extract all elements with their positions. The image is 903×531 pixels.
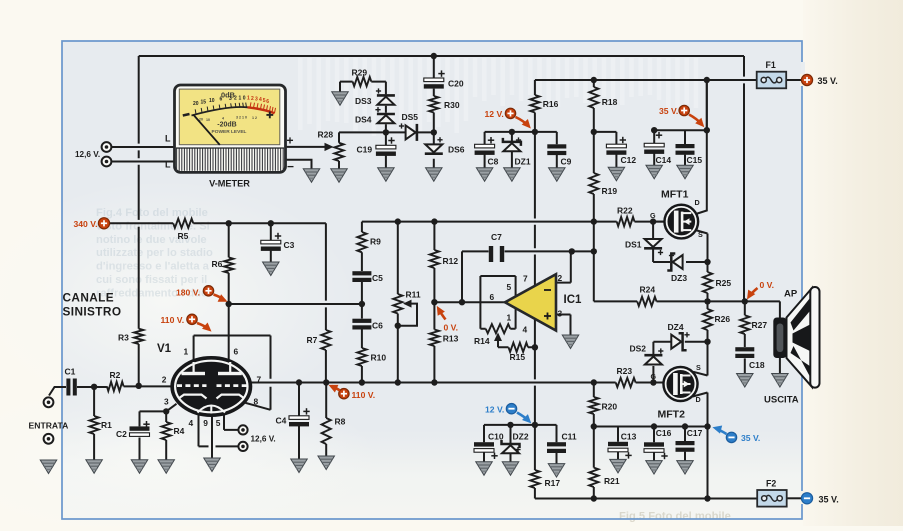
wire 12.6V terminal to meter lower	[111, 161, 175, 163]
wire top feedback rail	[139, 55, 744, 57]
arrow 0V right	[747, 288, 758, 300]
wire MFT2 source	[693, 342, 707, 376]
wire R8 branch	[325, 383, 327, 457]
ground C8	[476, 168, 493, 182]
resistor R16	[530, 95, 539, 113]
wire bracket to tube cathode pin 8	[246, 336, 271, 410]
svg-text:1: 1	[184, 347, 189, 357]
wire DZ1 branch	[511, 132, 513, 168]
svg-text:R23: R23	[617, 366, 633, 376]
V-meter minus mark	[183, 114, 190, 116]
svg-text:10: 10	[209, 98, 215, 104]
wire 12.6V terminal to meter upper	[111, 146, 175, 148]
wire R21 branch	[593, 427, 595, 499]
wire 110V rail (tube pin 7 row)	[251, 382, 663, 384]
diode DS5	[406, 124, 417, 141]
wire C8 branch	[484, 132, 486, 168]
ground C4	[291, 459, 308, 473]
svg-text:35 V.: 35 V.	[741, 433, 760, 443]
svg-text:4: 4	[189, 418, 194, 428]
capacitor C10	[474, 442, 498, 459]
wire R17 bottom to negative rail	[535, 498, 757, 500]
junction node 462,302.2	[459, 299, 465, 305]
svg-text:R29: R29	[352, 68, 368, 78]
svg-text:R16: R16	[543, 99, 559, 109]
wire tube heater pin 9 to ground	[211, 415, 213, 459]
svg-text:35 V.: 35 V.	[819, 494, 839, 504]
svg-text:MFT2: MFT2	[658, 409, 686, 421]
svg-text:DS1: DS1	[625, 240, 642, 250]
transistor MFT2	[663, 367, 698, 402]
junction node 434.4,221.6	[431, 218, 437, 224]
svg-text:G: G	[651, 372, 657, 381]
svg-text:2: 2	[162, 375, 167, 385]
svg-text:DS4: DS4	[355, 115, 372, 125]
junction node 385.9,132.4	[383, 129, 389, 135]
svg-text:C3: C3	[284, 240, 295, 250]
wire C14-C15 node	[654, 80, 707, 130]
junction node 361.9,304	[359, 301, 365, 307]
resistor R13	[430, 330, 439, 347]
svg-text:5: 5	[507, 282, 512, 292]
junction node 534.9,347.3	[532, 344, 538, 350]
ground C16	[646, 461, 663, 475]
op-amp IC1	[505, 274, 556, 330]
ground C14	[646, 165, 663, 179]
wire 0V node to speaker	[708, 301, 780, 319]
wire C9 branch	[556, 132, 558, 168]
svg-text:R14: R14	[474, 336, 490, 346]
junction node 593.8,251.4	[591, 248, 597, 254]
svg-text:C14: C14	[656, 155, 672, 165]
wire R18-R19 chain	[593, 80, 595, 222]
ground R1	[86, 460, 103, 474]
svg-text:35 V.: 35 V.	[659, 106, 678, 116]
capacitor C3	[261, 233, 281, 251]
V-meter secondary tiny scale	[199, 115, 257, 122]
capacitor C20	[424, 70, 445, 88]
junction node 653.4,382.5	[650, 379, 656, 385]
svg-text:V-METER: V-METER	[209, 179, 250, 189]
junction node 433.8,56	[431, 53, 437, 59]
svg-text:D: D	[696, 395, 701, 404]
V-meter plus mark	[266, 114, 273, 116]
diode DS6	[425, 144, 443, 153]
svg-text:0: 0	[243, 95, 246, 101]
junction node 707.5,341.7	[704, 339, 710, 345]
wire op-amp pin 2 stub	[557, 251, 571, 282]
speaker AP	[773, 287, 819, 388]
resistor R19	[589, 173, 598, 194]
wire C3 branch	[270, 223, 272, 240]
svg-text:R7: R7	[307, 335, 318, 345]
schematic panel background	[62, 41, 802, 519]
capacitor C2	[130, 421, 150, 436]
svg-text:Fig.5 Foto del mobile: Fig.5 Foto del mobile	[619, 511, 731, 523]
svg-text:7: 7	[523, 274, 528, 284]
blue border frame	[62, 41, 802, 519]
svg-text:1: 1	[247, 95, 250, 101]
svg-text:8: 8	[254, 397, 259, 407]
svg-text:R28: R28	[318, 130, 334, 140]
wire F2 to terminal	[787, 497, 802, 499]
svg-text:C5: C5	[372, 273, 383, 283]
svg-text:R18: R18	[602, 97, 618, 107]
photo bleed-through stripes (heatsink ghost)	[298, 58, 698, 136]
svg-text:4: 4	[222, 117, 224, 121]
svg-text:12 V.: 12 V.	[485, 109, 504, 119]
V-meter needle	[193, 115, 220, 145]
ground DZ1	[504, 168, 521, 182]
svg-text:C2: C2	[116, 429, 127, 439]
svg-text:R13: R13	[443, 334, 459, 344]
svg-text:C6: C6	[372, 321, 383, 331]
svg-text:DZ1: DZ1	[515, 157, 531, 167]
junction node 228.7,304	[226, 301, 232, 307]
svg-text:+: +	[287, 133, 294, 147]
svg-text:d'ingresso e l'aletta a: d'ingresso e l'aletta a	[96, 261, 210, 273]
ground input	[40, 460, 57, 474]
resistor R11 trimmer	[393, 294, 402, 314]
svg-text:C7: C7	[491, 232, 502, 242]
svg-text:R11: R11	[406, 290, 421, 300]
wire R25 between source and 0V node	[707, 262, 709, 301]
svg-text:R30: R30	[444, 100, 460, 110]
junction node 707.5,498.5	[704, 495, 710, 501]
junction node 744.8,301.4	[742, 298, 748, 304]
svg-text:12,6 V.: 12,6 V.	[75, 150, 100, 159]
svg-text:USCITA: USCITA	[764, 395, 799, 406]
ground DS6	[426, 168, 443, 182]
capacitor C13	[608, 442, 632, 459]
ground op-amp pin 3	[562, 335, 579, 349]
svg-text:L: L	[165, 134, 171, 144]
resistor R12	[430, 250, 439, 268]
resistor R4	[162, 422, 171, 440]
svg-text:12 V.: 12 V.	[485, 405, 504, 415]
wire offset null box pins 5 and 1	[480, 276, 515, 329]
capacitor C18	[735, 347, 754, 358]
ground tube pin 9	[204, 458, 221, 472]
svg-text:3: 3	[255, 96, 258, 102]
wire C1 to R2 to tube grid pin 2	[77, 385, 172, 388]
ground meter minus	[303, 169, 320, 183]
svg-text:R1: R1	[101, 420, 112, 430]
svg-text:G: G	[650, 211, 656, 220]
svg-text:MFT1: MFT1	[661, 189, 689, 201]
terminal 12.6V lower	[102, 157, 112, 167]
junction node 593.8,131.9	[591, 129, 597, 135]
svg-text:SINISTRO: SINISTRO	[63, 305, 122, 319]
capacitor C1	[66, 379, 76, 396]
terminal 35V bottom blue with arrow	[726, 432, 736, 442]
wire R1 branch	[93, 387, 95, 460]
zener DZ3	[667, 254, 682, 271]
svg-text:-20dB: -20dB	[217, 121, 236, 128]
diode DS3	[377, 95, 395, 104]
capacitor C6	[352, 319, 371, 330]
svg-text:7: 7	[257, 375, 262, 385]
svg-text:D: D	[695, 198, 700, 207]
wire R4 branch	[165, 411, 167, 459]
terminal tube heater lower	[238, 442, 247, 451]
wire R29 to DS3-DS4 chain	[340, 82, 386, 95]
wire C19 branch	[385, 132, 387, 167]
wire tube heater pin 4	[199, 412, 239, 447]
junction node 397.8,382.5	[395, 379, 401, 385]
junction node 571.8,251.4	[569, 248, 575, 254]
junction node 326.2,382.5	[323, 379, 329, 385]
terminal +35V at F1	[801, 74, 812, 85]
svg-text:R17: R17	[545, 478, 561, 488]
ground C15	[677, 165, 694, 179]
wire speaker return to ground	[779, 358, 781, 374]
svg-text:C13: C13	[621, 432, 637, 442]
capacitor C5	[352, 271, 371, 282]
resistor R10	[357, 348, 366, 366]
svg-text:R20: R20	[602, 402, 618, 412]
resistor R7	[321, 330, 330, 350]
ground DZ2	[502, 462, 519, 476]
wire 0V node to op-amp pin 6	[434, 301, 505, 303]
wire R6 branch	[228, 223, 230, 304]
junction node 361.9,382.5	[359, 379, 365, 385]
svg-text:3: 3	[558, 308, 563, 318]
wire 35V positive rail	[535, 79, 757, 81]
svg-text:340 V.: 340 V.	[74, 219, 98, 229]
capacitor C7	[489, 246, 504, 262]
terminal 12V top with arrow	[505, 108, 515, 118]
resistor R29	[353, 77, 372, 86]
svg-text:R26: R26	[715, 314, 731, 324]
wire MFT1 gate	[653, 221, 664, 223]
svg-text:S: S	[696, 363, 701, 372]
svg-text:9: 9	[203, 418, 208, 428]
svg-text:CANALE: CANALE	[63, 291, 115, 305]
wire C11 stub	[535, 425, 557, 464]
wire R24 to 0V speaker node	[657, 300, 708, 302]
junction node 707.5,301.4	[704, 298, 710, 304]
diode DS2	[644, 355, 662, 364]
wire 180V node down to tube plates	[228, 304, 230, 361]
svg-text:6: 6	[266, 99, 269, 105]
resistor R27	[740, 315, 749, 334]
svg-text:3 2 1 0: 3 2 1 0	[236, 115, 247, 119]
ground R8	[318, 456, 335, 470]
wire C17 stub	[684, 427, 686, 461]
svg-text:POWER LEVEL: POWER LEVEL	[212, 129, 247, 135]
wire op-amp pin 7 supply	[534, 132, 536, 286]
svg-text:R3: R3	[118, 333, 129, 343]
V-meter scale arc	[192, 107, 275, 115]
svg-text:4: 4	[259, 97, 262, 103]
junction node 397.8,325.7	[395, 323, 401, 329]
ground speaker	[772, 374, 789, 388]
svg-text:12,6 V.: 12,6 V.	[251, 435, 276, 444]
ground C10	[476, 462, 493, 476]
junction node 706.8,80	[704, 77, 710, 83]
resistor R21	[589, 468, 598, 487]
svg-text:DS3: DS3	[355, 96, 372, 106]
ground R29	[332, 92, 349, 106]
ground C3	[263, 262, 280, 276]
wire C10/DZ2 node	[484, 424, 535, 426]
ground C17	[677, 461, 694, 475]
svg-text:20: 20	[193, 101, 199, 107]
svg-text:1 2: 1 2	[252, 116, 257, 120]
svg-text:R2: R2	[110, 370, 121, 380]
resistor R25	[703, 272, 712, 293]
svg-text:cui sono fissati per il: cui sono fissati per il	[96, 274, 207, 286]
wire tube pin 3 to C2/R4 node	[166, 404, 176, 412]
capacitor C12	[606, 137, 626, 155]
junction node 510.5,424.9	[507, 422, 513, 428]
svg-text:110 V.: 110 V.	[161, 315, 185, 325]
resistor R2	[107, 382, 124, 391]
svg-text:notino le due valvole: notino le due valvole	[96, 234, 207, 246]
terminal input ENTRATA	[44, 397, 54, 407]
svg-text:R15: R15	[510, 352, 526, 362]
svg-text:C12: C12	[621, 155, 637, 165]
svg-text:S: S	[698, 230, 703, 239]
wire 340V rail	[110, 222, 326, 224]
junction node 94.1,386.8	[91, 384, 97, 390]
svg-text:C15: C15	[687, 155, 703, 165]
svg-text:R6: R6	[212, 259, 223, 269]
svg-text:35 V.: 35 V.	[818, 76, 838, 86]
junction node 593.8,426.5	[591, 423, 597, 429]
wire R12-R13 branch	[433, 222, 435, 383]
ground R28	[331, 169, 348, 183]
wire negative node rail C13-C16-C17	[594, 426, 708, 428]
junction node 707.5,426.5	[704, 423, 710, 429]
junction node 299,382.5	[296, 379, 302, 385]
terminal 12V bottom blue with arrow	[506, 404, 516, 414]
ground C19	[378, 168, 395, 182]
wire right vertical from top rail to 0V node	[743, 56, 745, 300]
junction node 654.2,130.2	[651, 127, 657, 133]
svg-text:DZ2: DZ2	[513, 432, 529, 442]
svg-text:6: 6	[490, 292, 495, 302]
terminal input ground	[44, 434, 54, 444]
capacitor C16	[644, 442, 668, 459]
junction node 654,426.5	[651, 423, 657, 429]
svg-text:180 V.: 180 V.	[176, 287, 200, 297]
svg-text:R12: R12	[443, 256, 459, 266]
svg-text:3: 3	[164, 396, 169, 406]
resistor R3	[134, 329, 143, 344]
ground R4	[158, 460, 175, 474]
junction node 653.1,221.6	[650, 218, 656, 224]
svg-text:DZ3: DZ3	[671, 273, 687, 283]
capacitor C15	[676, 144, 695, 155]
resistor R23	[616, 378, 636, 387]
wire C12 stub	[594, 132, 617, 167]
terminal 110V left with arrow	[187, 314, 197, 324]
junction node 534.9,424.9	[532, 422, 538, 428]
wire MFT2 drain down	[693, 393, 708, 499]
svg-text:C20: C20	[448, 79, 464, 89]
svg-text:R25: R25	[716, 278, 732, 288]
wire DZ2 branch	[510, 425, 512, 462]
svg-text:110 V.: 110 V.	[352, 390, 376, 400]
svg-text:ENTRATA: ENTRATA	[29, 420, 69, 430]
junction node 270.8,223.3	[268, 220, 274, 226]
junction node 593.8,382.5	[591, 379, 597, 385]
wire plate bracket over tube	[194, 336, 271, 361]
wire C4 branch	[298, 383, 300, 460]
svg-text:10: 10	[206, 118, 210, 122]
svg-text:F2: F2	[766, 479, 776, 489]
wire R16 branch	[534, 80, 536, 132]
resistor R26	[703, 309, 712, 330]
wire C15 branch	[684, 130, 686, 165]
wire C13 stub	[617, 427, 619, 460]
svg-text:R19: R19	[602, 186, 618, 196]
svg-text:utilizzate per lo stadio: utilizzate per lo stadio	[96, 247, 213, 259]
capacitor C4	[289, 408, 310, 426]
ground C9	[549, 168, 566, 182]
wire R26 between 0V node and MFT2 source	[707, 301, 709, 341]
resistor R8	[322, 418, 331, 444]
wire C14 branch	[653, 130, 655, 165]
svg-text:0 V.: 0 V.	[444, 323, 459, 333]
svg-text:R8: R8	[335, 417, 346, 427]
svg-text:2: 2	[558, 273, 563, 283]
wire DS2-DZ4 chain	[653, 342, 707, 383]
wire DS1-DZ3 chain	[653, 222, 707, 262]
resistor R17	[530, 470, 539, 488]
svg-text:R10: R10	[371, 353, 387, 363]
zener DZ4	[671, 333, 686, 350]
resistor R9	[357, 232, 366, 252]
svg-text:R27: R27	[752, 320, 768, 330]
wire op-amp pin 3 to ground	[557, 315, 571, 336]
diode DS4	[377, 114, 395, 123]
terminal 35V top with arrow	[679, 105, 689, 115]
ground C11	[548, 464, 565, 478]
wire R14 wiper to R15 to pin4 line	[498, 335, 535, 347]
terminal 12.6V upper	[102, 142, 112, 152]
wire R28 to ground	[338, 161, 340, 169]
svg-text:C9: C9	[561, 157, 572, 167]
svg-text:R5: R5	[178, 231, 189, 241]
wire R11 branch with wiper	[397, 222, 399, 383]
svg-text:R9: R9	[370, 237, 381, 247]
zener DZ1	[503, 138, 521, 151]
V-meter coil stripes	[176, 147, 284, 170]
ground C12	[608, 167, 625, 181]
svg-text:5: 5	[216, 418, 221, 428]
junction node 593.8,80	[591, 77, 597, 83]
resistor R15	[509, 343, 529, 352]
resistor R28 trimmer	[334, 143, 343, 161]
svg-text:Fig.4 Foto del mobile: Fig.4 Foto del mobile	[96, 207, 208, 219]
junction node 706.8,130.2	[704, 127, 710, 133]
wire op-amp pin 4 negative supply	[534, 319, 536, 499]
svg-text:DS5: DS5	[402, 112, 419, 122]
wire input to C1	[49, 387, 66, 396]
ground C13	[610, 459, 627, 473]
wire MFT1 source	[694, 230, 708, 263]
resistor R5	[173, 219, 193, 228]
terminal -35V at F2	[801, 493, 812, 504]
wire op-amp output vertical to drive node and R24	[594, 222, 637, 302]
wire left feedback vertical to tube grid	[138, 56, 140, 386]
svg-text:2: 2	[251, 96, 254, 102]
svg-text:C18: C18	[749, 360, 765, 370]
svg-text:15: 15	[201, 99, 207, 105]
